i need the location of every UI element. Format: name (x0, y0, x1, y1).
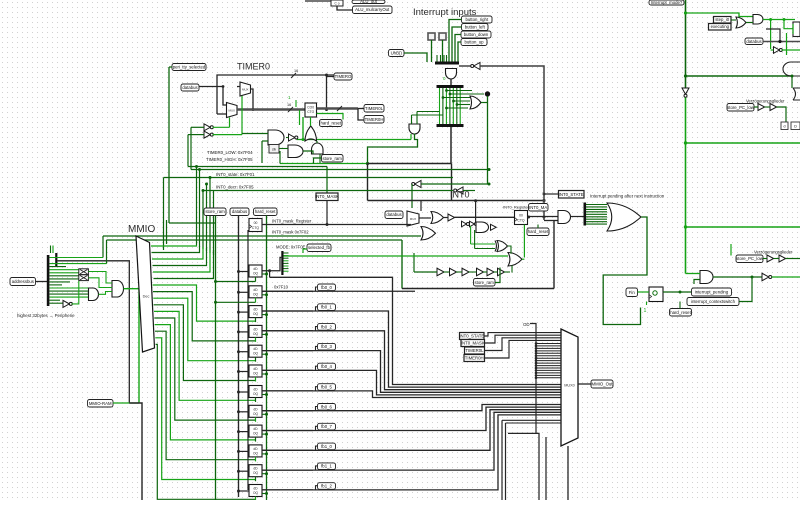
wire const input 14 (536, 377, 561, 379)
label databus (745, 38, 763, 45)
wire address bit 4 (50, 269, 79, 271)
label fb1_1 (318, 463, 336, 470)
XNOR compare bit b (79, 275, 89, 281)
svg-text:UhB(): UhB() (391, 51, 403, 56)
flip-flop DFF fb0_7 (249, 405, 262, 417)
svg-text:INT0_mask_Register: INT0_mask_Register (272, 219, 312, 224)
wire stair extra a (501, 420, 503, 500)
wire Q out (262, 430, 313, 432)
wire clock stub (239, 470, 250, 472)
wire left bundle 1 (163, 178, 165, 251)
AND gate interrupt strobe (down) (446, 69, 457, 79)
junction matrix (452, 100, 455, 103)
wire splitter bit 2 (586, 208, 607, 210)
wire mux to OR (419, 217, 431, 219)
junction clock (237, 430, 240, 433)
junction dff0 out (268, 269, 271, 272)
wire reset link (262, 353, 267, 355)
wire chain link 5 (494, 271, 498, 273)
wire row selected a (350, 235, 421, 237)
wire INT0_MASK down (326, 201, 328, 225)
wire fb lower 5 (262, 415, 561, 490)
wire matrix bottom down (450, 127, 452, 164)
label INT0_STATE (559, 191, 585, 199)
wire NOT out up (302, 117, 304, 140)
bus timer data (237, 108, 305, 110)
wire store_ram up (495, 268, 500, 283)
junction const (535, 355, 538, 358)
wire matrix row (457, 104, 470, 106)
svg-text:fb0_4: fb0_4 (321, 364, 332, 369)
wire fb splitter bit 7 (284, 270, 289, 272)
svg-text:INT0_STATE: INT0_STATE (459, 334, 484, 339)
svg-text:CTQ: CTQ (517, 219, 525, 223)
wire fan up 6 (213, 191, 215, 256)
buffer delay 3 (767, 255, 774, 262)
wire (316, 307, 318, 311)
AND gate peripheral select (112, 281, 124, 298)
label fb0_4 (318, 363, 336, 370)
wire const input 6 (536, 357, 561, 359)
wire fb splitter bit 6 (284, 268, 289, 270)
svg-text:TIMER0H: TIMER0H (465, 356, 484, 361)
svg-text:CO0: CO0 (307, 106, 314, 110)
wire matrix column 6 (459, 88, 461, 124)
svg-text:MUX0: MUX0 (564, 384, 575, 388)
wire peripheral select out (124, 289, 140, 403)
svg-text:fb0_2: fb0_2 (321, 324, 332, 329)
wire INT0 box bottom (402, 288, 554, 290)
wire AND clock out (303, 151, 313, 154)
NOT gate on interrupt ack (facing left) (474, 63, 480, 70)
wire splitter fan 3 (443, 55, 445, 62)
wire AND chain (99, 292, 113, 295)
label fb0_2 (318, 324, 336, 331)
svg-text:MUX: MUX (242, 88, 248, 92)
wire TIMER0L to mux (485, 338, 562, 351)
wire store AND in (319, 154, 321, 163)
svg-text:0x7F10: 0x7F10 (274, 285, 289, 290)
NOT gate address (63, 300, 69, 307)
wire data stub (248, 407, 249, 409)
svg-text:store_PC_low: store_PC_low (736, 256, 764, 261)
svg-text:MUX: MUX (229, 109, 235, 113)
wire Q out (262, 290, 313, 292)
svg-text:Verzögerungsglieder: Verzögerungsglieder (746, 99, 785, 104)
label Fin (626, 288, 638, 297)
wire matrix left row 2 (412, 114, 444, 116)
wire Q out (262, 330, 313, 332)
splitter addressbus spine (47, 255, 50, 306)
wire decoder out down 0 (153, 285, 256, 321)
wire NOT in (771, 49, 774, 51)
svg-text:OD: OD (523, 322, 530, 327)
junction row 143 (684, 141, 687, 144)
svg-text:button_right: button_right (465, 17, 489, 22)
wire chain out (504, 271, 510, 273)
wire OR to AND (746, 22, 753, 24)
wire sel row long 1 (103, 235, 350, 237)
wire fb splitter bit 5 (284, 265, 289, 267)
wire databus right (763, 41, 800, 43)
wire reset link (262, 273, 267, 275)
wire reset link (262, 314, 267, 316)
wire fb upper 6 (262, 391, 561, 398)
wire fb0_0 long (262, 290, 415, 292)
wire sel high out (213, 126, 230, 128)
wire to NOT below (770, 20, 772, 50)
wire label to buffer (754, 106, 758, 108)
svg-text:Interrupt_mode?: Interrupt_mode? (651, 0, 683, 5)
svg-text:dD: dD (253, 447, 258, 451)
wire fb lower 2 (262, 407, 561, 430)
wire counter load (302, 117, 304, 138)
wire xor in a drop (470, 226, 472, 244)
wire AND to splitter (571, 216, 584, 218)
svg-text:TIMER0L: TIMER0L (465, 348, 484, 353)
wire to TIMER0H (358, 109, 364, 121)
wire buffer down to MUX (411, 184, 413, 208)
wire MUX A in (237, 86, 240, 88)
svg-text:OQ: OQ (253, 352, 258, 356)
wire Q out (262, 469, 313, 471)
wire INT0_MASK up (326, 167, 328, 194)
svg-text:MMIO-RAM: MMIO-RAM (89, 401, 112, 406)
wire interrupt mode column (top) (685, 0, 687, 88)
AND gate interrupt go (700, 271, 713, 284)
wire TIMER0H to mux (485, 340, 562, 358)
wire peri_tty down (168, 67, 170, 223)
flip-flop DFF fb1_3 (249, 485, 262, 497)
OR gate INT0 c (421, 227, 436, 241)
flip-flop DFF fb0_6 (249, 386, 262, 398)
wire enable stub (255, 398, 257, 403)
svg-text:TIMER0_HIGH: 0x7F05: TIMER0_HIGH: 0x7F05 (206, 157, 253, 162)
junction row 76 (684, 74, 687, 77)
wire to TIMERO label (327, 76, 334, 78)
buffer chain 2 (450, 268, 457, 276)
junction clock (237, 410, 240, 413)
wire matrix column 0 (439, 88, 441, 124)
wire xnor b to AND (88, 278, 112, 288)
wire chain link 2 (456, 271, 462, 273)
svg-text:dD: dD (253, 327, 258, 331)
label Interrupt_mode? (649, 0, 684, 5)
junction const (535, 347, 538, 350)
wire bright row 139 (297, 139, 412, 141)
wire AND out elbow (368, 134, 418, 164)
wire reset link (262, 333, 267, 335)
junction const (535, 362, 538, 365)
svg-text:interrupt_contextswitch: interrupt_contextswitch (691, 299, 736, 304)
OR gate INT0 decr (508, 253, 522, 267)
wire enable stub (255, 437, 257, 442)
splitter interrupt bundle (435, 62, 459, 65)
wire enable stub (255, 318, 257, 323)
label interrupt_pending (692, 288, 732, 296)
wire row227 tap down (730, 244, 732, 256)
wire AND to matrix (450, 79, 452, 86)
wire data stub (248, 288, 249, 290)
junction reset (265, 452, 268, 455)
wire button_right (449, 20, 462, 63)
wire enable stub (255, 357, 257, 362)
multiplexer MUX B (timer low) (227, 103, 238, 118)
wire OR out to node (481, 102, 488, 104)
wire to MUX B low (217, 113, 227, 115)
svg-text:dD: dD (253, 267, 258, 271)
label UhB() (389, 50, 405, 57)
wire bright row 163 (280, 163, 368, 165)
junction clock (237, 270, 240, 273)
wire decoder out up 3 (153, 248, 207, 266)
wire clock stub (239, 391, 250, 393)
junction reset (265, 472, 268, 475)
wire left drop to INT0 (367, 164, 369, 201)
wire const timer (295, 100, 297, 107)
wire store_ram hook (314, 158, 322, 164)
component decoder Decod (136, 236, 155, 352)
svg-text:dD: dD (253, 288, 258, 292)
wire stair extra a top (502, 419, 561, 421)
wire mask register out (262, 224, 411, 226)
wire address bit 15 (50, 302, 64, 304)
component pin DPC (791, 122, 800, 130)
wire address bit 9 (50, 284, 63, 286)
wire register to AND (528, 216, 559, 218)
label ALU_out (352, 0, 385, 4)
wire fan up 5 (209, 178, 211, 254)
junction pending out (679, 291, 682, 294)
junction row C tap (209, 176, 212, 179)
wire fb splitter bit 0 (284, 252, 289, 254)
wire data column (247, 230, 249, 490)
register INT0_Register (515, 211, 528, 225)
bus width tick 16 top (291, 73, 296, 78)
label TIMER0H (464, 355, 485, 362)
flip-flop DFF fb0_5 (249, 365, 262, 377)
label step_i0 (714, 17, 732, 24)
wire ALU top (305, 0, 331, 2)
wire const 1 (646, 302, 648, 306)
wire const input 11 (536, 369, 561, 371)
buffer chain 6 (498, 268, 505, 276)
wire long row 227 (686, 226, 800, 228)
wire enable row (216, 281, 256, 283)
pin button input 2 (439, 33, 446, 40)
svg-text:TIMER0H: TIMER0H (365, 117, 384, 122)
svg-text:button_down: button_down (464, 32, 489, 37)
wire xnor a to AND (88, 272, 112, 284)
wire enable stub (255, 298, 257, 303)
wire fb splitter bit 3 (284, 260, 289, 262)
svg-text:hard_reset: hard_reset (528, 229, 549, 234)
wire counter enable (299, 110, 301, 125)
wire mux select down a (508, 433, 539, 500)
junction const (535, 372, 538, 375)
wire timer black loop (217, 75, 334, 114)
XNOR compare bit a (79, 269, 89, 275)
wire decoder out up 0 (151, 245, 197, 246)
NOT gate after AND (289, 134, 295, 141)
wire data stub (248, 447, 249, 449)
wire clkand drop (279, 151, 281, 164)
junction const (535, 377, 538, 380)
wire chain to OR (511, 266, 513, 273)
svg-text:16: 16 (287, 103, 291, 107)
label databus (181, 84, 199, 91)
wire row select a (164, 177, 454, 179)
wire decoder out down 8 (155, 338, 255, 480)
splitter matrix bottom bar (437, 124, 464, 127)
wire decoder out up 5 (154, 250, 214, 279)
wire splitter bit 6 (586, 218, 607, 220)
flip-flop DFF fb1_0 (249, 425, 262, 437)
svg-text:fb0_0: fb0_0 (321, 285, 332, 290)
label store_PC_low (736, 255, 764, 263)
wire matrix row (447, 90, 473, 92)
junction clock (237, 470, 240, 473)
OR gate INT0 a (431, 212, 444, 224)
wire matrix column 2 (445, 88, 447, 124)
AND gate clock gate (288, 145, 303, 158)
wire clock stub (239, 271, 250, 273)
wire const input 9 (536, 365, 561, 367)
wire data stub (248, 308, 249, 310)
wire matrix column 1 (442, 88, 444, 124)
buffer row pending (facing left) (415, 181, 421, 188)
svg-text:interrupt_pending: interrupt_pending (695, 290, 729, 295)
wire data stub (248, 388, 249, 390)
wire register out (663, 291, 692, 293)
wire matrix column 5 (456, 88, 458, 124)
svg-text:fb1_0: fb1_0 (321, 444, 332, 449)
label INT0_MA (529, 204, 549, 212)
wire Q out (262, 350, 313, 352)
label fb0_1 (318, 304, 336, 311)
wire MUX A select (241, 96, 243, 135)
wire AND in 1 (411, 115, 413, 124)
svg-text:INT0: INT0 (450, 190, 470, 200)
label TIMER0L (465, 347, 485, 354)
label ALU_mulcarryOut (353, 6, 393, 14)
junction const (535, 357, 538, 360)
wire xor in a (471, 243, 495, 245)
wire stair extra b (505, 423, 507, 500)
wire comb up 2 (52, 246, 54, 254)
wire INT0 box left (401, 240, 403, 289)
wire address bit 6 (50, 275, 79, 277)
wire black row 163 (368, 163, 452, 165)
junction reset (265, 393, 268, 396)
svg-text:OQ: OQ (253, 432, 258, 436)
wire OR-AND link (316, 141, 318, 143)
wire OR to buffer (444, 217, 449, 219)
svg-text:C o: C o (335, 2, 340, 6)
junction reset (265, 433, 268, 436)
wire to TIMER0L (358, 108, 364, 110)
svg-text:fb1_2: fb1_2 (321, 484, 332, 489)
wire address bit 8 (50, 281, 71, 283)
svg-text:D: D (794, 125, 797, 129)
junction enable (214, 301, 217, 304)
buffer chain 3 (462, 268, 469, 276)
wire right drop to INT0 (451, 164, 453, 201)
wire reset link (262, 453, 267, 455)
splitter matrix top bar (437, 85, 464, 88)
wire (316, 466, 318, 470)
junction mode tap (684, 11, 687, 14)
wire const input 8 (536, 362, 561, 364)
wire stair extra b top (506, 422, 562, 424)
AND gate store (up) (312, 143, 324, 154)
XOR gate INT0 decr (497, 241, 508, 252)
NOT gate INT0 pair 2 (470, 221, 475, 227)
wire dff0 drop (269, 271, 271, 278)
wire AND in 2 (416, 112, 418, 125)
wire reset link (262, 433, 267, 435)
svg-text:Verzögerungsglieder: Verzögerungsglieder (754, 250, 793, 255)
flip-flop DFF fb0_1 (249, 286, 262, 298)
wire fb lower 1 (262, 405, 561, 411)
svg-text:INT0_STATE: INT0_STATE (559, 192, 584, 197)
component counter COUNT0 (305, 103, 317, 117)
wire xor in b drop (474, 230, 476, 249)
wire NOT out (782, 49, 800, 51)
label hard_reset (254, 208, 278, 216)
junction matrix (445, 89, 448, 92)
junction reset (265, 333, 268, 336)
wire splitter bit 4 (586, 213, 607, 215)
wire splitter bit 3 (586, 211, 607, 213)
svg-text:INT0_Register: INT0_Register (503, 205, 529, 210)
wire fb upper 5 (262, 370, 561, 395)
wire decoder out up 1 (152, 246, 200, 253)
wire matrix column 3 (449, 88, 451, 124)
wire decoder out up 4 (153, 249, 210, 272)
svg-text:fb0_5: fb0_5 (321, 385, 332, 390)
component clock dk (269, 145, 279, 154)
wire address bit 7 (50, 278, 79, 280)
wire (316, 287, 318, 291)
wire fan up 2 (199, 170, 201, 248)
wire decoder out down 6 (155, 325, 256, 440)
buffer chain 5 (487, 268, 494, 276)
junction const (535, 342, 538, 345)
wire clk to AND (279, 148, 288, 150)
OR gate interrupt pending (big) (607, 203, 641, 231)
svg-text:ALU_out: ALU_out (360, 0, 378, 4)
svg-text:OQ: OQ (253, 412, 258, 416)
svg-text:dD: dD (253, 347, 258, 351)
label MMIO-RAM (88, 400, 114, 408)
wire peri_tty stub (169, 66, 172, 68)
wire enable stub (255, 477, 257, 482)
svg-text:CTO: CTO (307, 110, 314, 114)
junction const (535, 367, 538, 370)
junction INT0 top (542, 199, 545, 202)
wire data stub (248, 467, 249, 469)
svg-text:MMIO_Out: MMIO_Out (591, 382, 613, 387)
junction and out b (783, 18, 786, 21)
junction const (535, 369, 538, 372)
wire decoder out down 2 (153, 298, 255, 361)
AND gate timer write (268, 130, 284, 145)
register INT0_mask_Register (249, 219, 262, 232)
NOT gate clk right (774, 47, 780, 54)
svg-text:OQ: OQ (253, 451, 258, 455)
junction timer bus (325, 108, 328, 111)
